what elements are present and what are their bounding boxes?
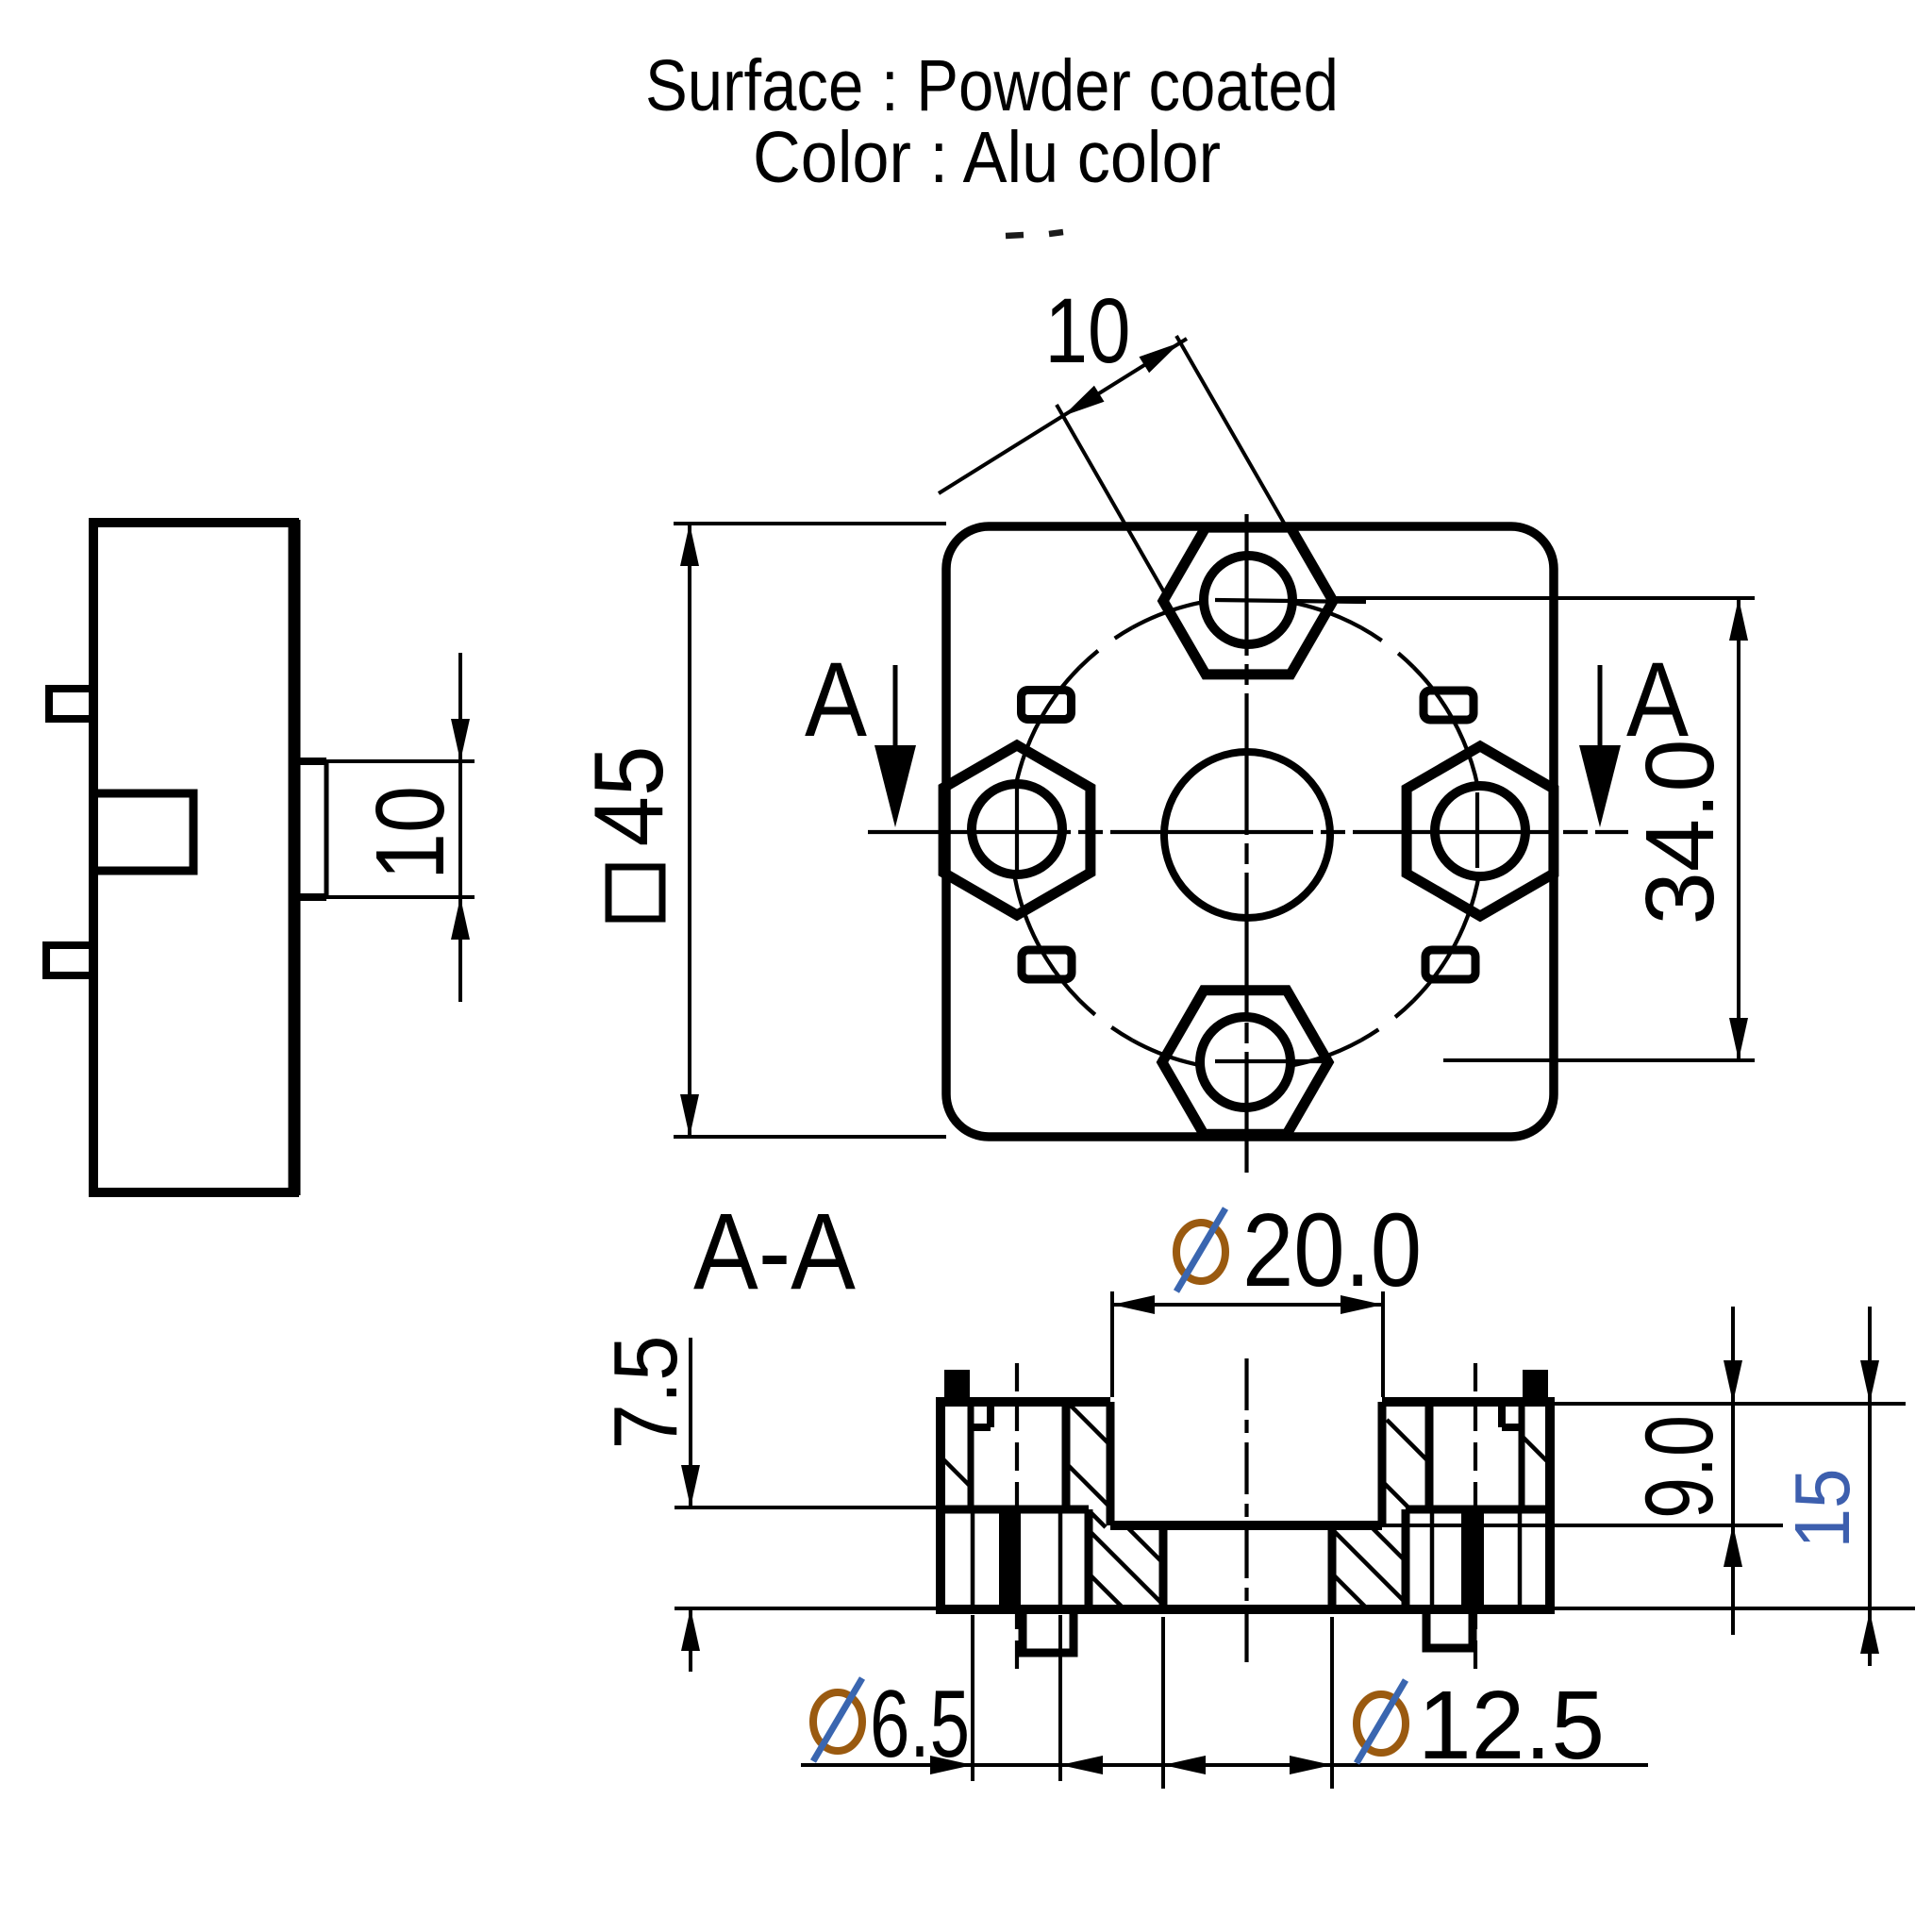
dim 20.0: extension line right [1381,1291,1385,1397]
hatching [941,1405,1550,1608]
hatch left mid wall 1 [1070,1405,1110,1445]
diagonal dim 10: arrowhead left [1063,386,1105,416]
section top surface left part [941,1397,1110,1407]
dim 20.0: arrowhead right [1341,1295,1383,1314]
diameter symbol 6.5 [813,1678,862,1761]
step line right [1406,1506,1550,1514]
bolt circle arc top-hex span [1132,598,1360,627]
hatch left mid wall 3 [1091,1513,1106,1527]
hatch lower-left 2 [1091,1533,1163,1605]
horizontal centerline [868,830,1628,834]
dim 15: extension line top [1550,1402,1906,1406]
dim 34.0: arrowhead top [1729,598,1748,641]
section top surface right part [1382,1397,1550,1407]
arrowhead 6.5 right [1060,1756,1103,1774]
hatch left outer wall [941,1457,970,1486]
svg-text:7.5: 7.5 [595,1336,696,1450]
hatch lower-right 1 [1372,1527,1406,1561]
section arrow left stem [893,665,898,750]
pin left below [1023,1609,1074,1653]
bolt circle arc right-hex span [1413,667,1482,1001]
diagonal dim 10: extension line right [1176,336,1285,525]
step vertical left [1085,1509,1093,1609]
hatch lower-right 3 [1332,1574,1367,1608]
top hex nut [1163,527,1333,675]
svg-text:15: 15 [1778,1469,1866,1549]
dim 7.5: extension line top [675,1506,941,1509]
recess12.5 left wall [1159,1525,1168,1609]
hatch lower-right 2 [1335,1532,1405,1602]
section left outer edge [936,1397,945,1614]
pressed pin left (filled) [999,1509,1021,1609]
pin hole right wall b [1518,1509,1523,1609]
right hex bore [1435,786,1525,876]
dim 7.5: arrowhead top [681,1465,700,1507]
side view right boss right edge [325,761,329,897]
left hex bore [972,784,1062,874]
dashed axis left pin [1015,1363,1019,1670]
bolt circle arc bottom-hex span [1132,1041,1360,1070]
svg-text:12.5: 12.5 [1418,1671,1605,1779]
side view upper-left tab [49,689,93,719]
extension line bottom [326,895,475,899]
pin hole right wall a [1430,1509,1435,1609]
svg-text:10: 10 [1045,279,1131,382]
diagonal dim 10: dimension line [939,339,1187,493]
right hex nut [1407,746,1554,916]
dim 15: extension line bottom [1550,1607,1915,1610]
side view right boss bottom edge [294,893,326,901]
svg-text:Surface : Powder coated: Surface : Powder coated [645,45,1339,126]
bore20 right wall [1378,1402,1387,1525]
bolt circle dash w-botleft [1080,1001,1133,1041]
dim 15: arrowhead top [1860,1360,1879,1403]
section bottom surface [941,1605,1550,1614]
arrowhead 12.5 right [1290,1756,1332,1774]
hatch right mid wall 1 [1387,1420,1429,1462]
svg-text:45: 45 [575,746,684,847]
dim 34.0: bottom extension line [1443,1058,1755,1062]
dim 20.0: extension line left [1110,1291,1114,1397]
groove left notch right edge [987,1402,994,1427]
remnant dash marks [1006,232,1063,236]
diameter symbol 12.5 [1357,1680,1406,1763]
svg-text:A: A [805,641,867,758]
side view inner notch [93,793,193,871]
extension line top [326,759,475,763]
right hex centermark [1475,792,1479,868]
ext recess left [1161,1617,1165,1789]
svg-text:34.0: 34.0 [1625,740,1734,925]
dim 9.0: arrowhead top [1724,1360,1742,1403]
svg-text:20.0: 20.0 [1242,1192,1422,1308]
dim 7.5: dimension line upper [689,1338,692,1507]
central bore circle [1164,752,1330,918]
step line left [941,1506,1089,1514]
dimension 10 (side view boss) [326,653,475,1002]
bottom hex nut [1162,991,1328,1134]
dim square45: arrowhead bottom [680,1094,699,1137]
section arrow right stem [1598,665,1603,750]
pocket wall right [1425,1402,1434,1509]
side view body outline [93,523,294,1192]
groove right inner wall [1519,1402,1525,1509]
pin right below [1426,1609,1473,1648]
bore20 bottom [1110,1521,1382,1530]
groove left inner wall [968,1402,974,1509]
groove right notch bottom [1502,1424,1522,1431]
dim 15: dimension line [1868,1307,1872,1666]
bolt circle dash w-botright [1361,1001,1414,1041]
groove right notch left edge [1498,1402,1506,1427]
svg-text:9.0: 9.0 [1625,1415,1733,1519]
arrowhead 6.5 left [930,1756,973,1774]
side view right boss top edge [294,758,326,765]
side view right edge (heavier) [289,520,301,1195]
pressed pin right (filled) [1461,1509,1484,1609]
dim 9.0: arrowhead bottom [1724,1524,1742,1567]
arrowhead bottom (10 side) [451,897,470,940]
left hex centermark [1015,783,1019,877]
bottom hex centermark [1215,1059,1324,1063]
hatch right outer wall [1524,1438,1550,1464]
hatch left mid wall 2 [1066,1463,1110,1507]
diagonal dim 10: extension line left [1057,405,1167,597]
dashed axis right pin [1474,1363,1477,1670]
side view lower-left tab [46,945,92,975]
svg-text:10: 10 [356,786,464,880]
dim square45: bottom extension line [674,1135,946,1139]
svg-text:Color : Alu color: Color : Alu color [753,117,1221,198]
arrowhead 12.5 left [1163,1756,1206,1774]
hatch right mid wall 2 [1383,1482,1408,1507]
ext pin hole left b [1058,1615,1062,1781]
top hex bore [1204,556,1292,644]
dim 20.0: arrowhead left [1112,1295,1155,1314]
front view square plate [946,526,1554,1137]
bore20 left wall [1107,1402,1115,1525]
dim 9.0: dimension line [1731,1307,1735,1635]
square symbol [608,867,662,919]
diagonal dim 10: arrowhead right [1140,342,1181,373]
dim 15: arrowhead bottom [1860,1611,1879,1654]
dim 7.5: dimension line lower [689,1608,692,1672]
groove left notch bottom [971,1424,991,1431]
dimension line [458,653,462,1002]
tab cut right (filled) [1523,1370,1548,1404]
dim 34.0: dimension line [1737,598,1740,1060]
slot top-left [1022,691,1072,720]
dim square45: arrowhead top [680,524,699,566]
arrowhead top (10 side) [451,719,470,761]
dim 34.0: top extension line [1335,596,1755,600]
diameter symbol 20.0 [1176,1208,1225,1291]
dim 6.5 / 12.5 extension lines below [801,1615,1648,1789]
slot bottom-right [1425,950,1475,979]
bolt circle arc left-hex span [1010,761,1079,1001]
dim 20.0: dimension line [1112,1303,1383,1307]
tab cut left (filled) [944,1370,970,1404]
slot top-right [1424,691,1474,720]
svg-text:A-A: A-A [693,1191,856,1312]
dim 7.5: arrowhead bottom [681,1608,700,1651]
dim square45: dimension line [688,524,691,1137]
ext recess right [1330,1617,1334,1789]
dim 34.0: arrowhead bottom [1729,1018,1748,1060]
vertical centerline [1244,514,1248,1173]
svg-text:A: A [1626,641,1689,758]
recess12.5 right wall [1328,1525,1337,1609]
pin hole left wall b [1058,1509,1063,1609]
ext pin hole left a [971,1615,974,1781]
svg-text:6.5: 6.5 [870,1672,970,1777]
step vertical right [1402,1509,1410,1609]
top hex centermark [1215,600,1366,602]
bolt circle dash w-topright [1361,627,1414,667]
pocket wall left [1062,1402,1071,1509]
bolt circle dash w-topleft [1080,627,1133,667]
left hex nut [943,745,1091,915]
bottom hex bore [1200,1017,1291,1108]
pin hole left wall a [971,1509,975,1609]
dim 7.5: extension line bottom [675,1607,941,1610]
section arrow right head [1579,745,1621,827]
section arrow left head [874,745,916,827]
hatch lower-left 1 [1128,1528,1163,1563]
dim square45: top extension line [674,522,946,525]
section right outer edge [1545,1397,1555,1614]
dim 9.0: extension line bottom [1382,1524,1783,1527]
bolt circle arc tl-slot span [1023,667,1080,761]
dashed axis center [1244,1358,1248,1670]
slot bottom-left [1022,950,1072,979]
hatch lower-left 3 [1089,1574,1124,1608]
bottom dimension line [801,1763,1648,1767]
